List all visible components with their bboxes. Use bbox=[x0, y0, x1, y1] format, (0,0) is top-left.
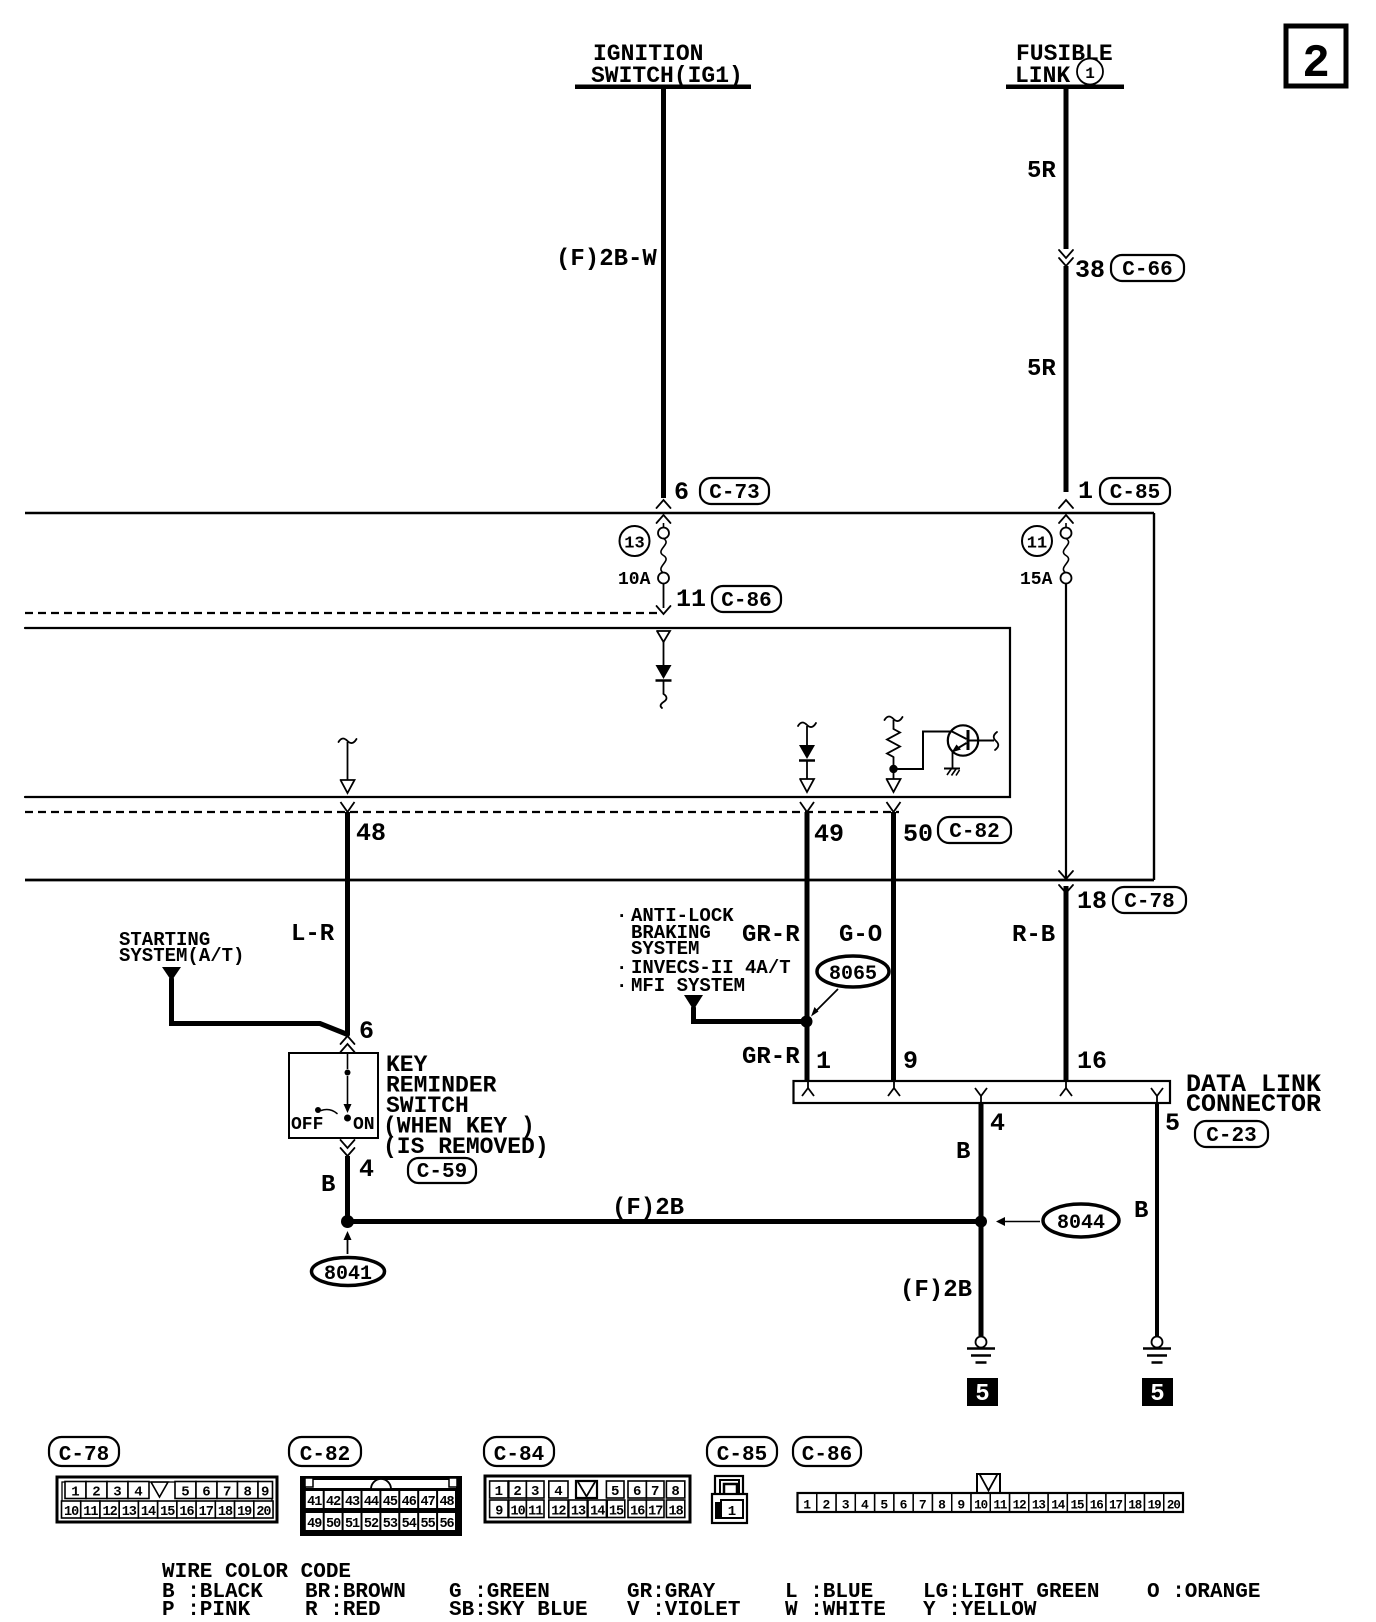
svg-text:10A: 10A bbox=[618, 570, 651, 590]
junction splice dot 8065 bbox=[801, 1016, 813, 1028]
svg-text:14: 14 bbox=[141, 1505, 156, 1520]
connector C-66 label bbox=[1111, 255, 1184, 282]
arrow from 8044 to splice bbox=[996, 1217, 1040, 1226]
junction splice dot 8041 bbox=[341, 1215, 354, 1228]
svg-text:8065: 8065 bbox=[829, 963, 877, 986]
ETACS box top edge bbox=[25, 512, 1154, 514]
svg-text:5R: 5R bbox=[1027, 356, 1056, 383]
svg-text:6: 6 bbox=[633, 1484, 641, 1500]
svg-text:B: B bbox=[1134, 1198, 1148, 1225]
transistor Q bbox=[944, 725, 978, 775]
svg-text:15: 15 bbox=[609, 1505, 624, 1520]
connector C-86 label bbox=[793, 1437, 861, 1467]
svg-text:9: 9 bbox=[957, 1498, 965, 1513]
svg-text:51: 51 bbox=[345, 1517, 360, 1532]
arrow crossing at pin 18 C-78 bbox=[1059, 871, 1073, 893]
svg-text:C-78: C-78 bbox=[1124, 891, 1174, 914]
output arrow to pin 48 bbox=[339, 739, 357, 794]
svg-text:4: 4 bbox=[359, 1155, 374, 1184]
svg-text:(F)2B: (F)2B bbox=[612, 1195, 684, 1222]
svg-text:5: 5 bbox=[880, 1498, 888, 1513]
ground right bbox=[1143, 1337, 1171, 1363]
svg-text:44: 44 bbox=[364, 1495, 379, 1510]
ETACS box bottom edge bbox=[25, 879, 1154, 882]
wire fuse 11 down to pin 18 bbox=[1065, 584, 1067, 879]
key reminder switch internals bbox=[315, 1053, 352, 1122]
svg-text:15A: 15A bbox=[1020, 570, 1053, 590]
branch arrow starting system bbox=[162, 967, 348, 1035]
svg-text:20: 20 bbox=[256, 1505, 271, 1520]
svg-text:7: 7 bbox=[223, 1485, 231, 1501]
junction node base bbox=[889, 765, 897, 773]
wire B from DLC pin 4 bbox=[979, 1103, 984, 1336]
svg-text:R-B: R-B bbox=[1012, 922, 1055, 949]
svg-text:1: 1 bbox=[803, 1498, 811, 1513]
svg-text:SYSTEM(A/T): SYSTEM(A/T) bbox=[119, 945, 244, 967]
svg-text:C-85: C-85 bbox=[1110, 482, 1160, 505]
connector C-86 label bbox=[712, 586, 781, 613]
branch arrow ABS/INVECS/MFI bbox=[684, 995, 806, 1022]
svg-text:3: 3 bbox=[113, 1485, 121, 1501]
svg-text:16: 16 bbox=[630, 1505, 645, 1520]
svg-text:C-86: C-86 bbox=[721, 590, 771, 613]
arrow into C-86 pin 11 bbox=[657, 606, 671, 614]
svg-text:8: 8 bbox=[244, 1485, 252, 1501]
wire L-R bbox=[345, 812, 350, 1034]
svg-text:13: 13 bbox=[624, 535, 644, 554]
wire fuse 13 to pin 11 bbox=[663, 584, 665, 609]
arrow up to splice 8041 bbox=[344, 1231, 352, 1254]
svg-text:ON: ON bbox=[353, 1115, 375, 1135]
svg-text:C-82: C-82 bbox=[300, 1444, 350, 1467]
svg-text:C-59: C-59 bbox=[417, 1161, 467, 1184]
key reminder switch box bbox=[289, 1053, 378, 1138]
svg-text:2: 2 bbox=[513, 1484, 521, 1500]
svg-text:12: 12 bbox=[551, 1505, 566, 1520]
svg-text:5: 5 bbox=[975, 1381, 989, 1408]
svg-text:53: 53 bbox=[383, 1517, 398, 1532]
label systems list bbox=[616, 905, 791, 997]
label DATA LINK CONNECTOR bbox=[1186, 1070, 1321, 1119]
pin 49 terminal Y bbox=[800, 802, 814, 812]
connector C-82 pin label bbox=[938, 817, 1011, 844]
label STARTING SYSTEM(A/T) bbox=[119, 929, 244, 967]
svg-text:4: 4 bbox=[134, 1485, 142, 1501]
fuse 11 badge bbox=[1022, 526, 1052, 556]
svg-text:11: 11 bbox=[83, 1505, 98, 1520]
connector C-78 pin label bbox=[1113, 887, 1186, 914]
arrow from 8065 to splice bbox=[811, 989, 838, 1017]
inner module box bbox=[25, 628, 1010, 797]
svg-text:(F)2B-W: (F)2B-W bbox=[556, 246, 657, 273]
svg-text:R :RED: R :RED bbox=[305, 1599, 381, 1622]
svg-text:8044: 8044 bbox=[1057, 1212, 1105, 1235]
svg-text:5: 5 bbox=[1150, 1381, 1164, 1408]
svg-text:13: 13 bbox=[571, 1505, 586, 1520]
svg-text:C-84: C-84 bbox=[494, 1444, 544, 1467]
svg-text:1: 1 bbox=[71, 1485, 79, 1501]
svg-text:1: 1 bbox=[816, 1047, 831, 1076]
svg-text:16: 16 bbox=[1090, 1499, 1104, 1513]
svg-text:8: 8 bbox=[671, 1484, 679, 1500]
data link connector box bbox=[794, 1081, 1171, 1103]
node IGNITION SWITCH(IG1) bbox=[575, 41, 751, 89]
svg-text:B: B bbox=[321, 1172, 335, 1199]
svg-text:55: 55 bbox=[421, 1517, 436, 1532]
svg-text:15: 15 bbox=[160, 1505, 175, 1520]
connector C-85 label bbox=[707, 1437, 777, 1467]
connector C-85 label bbox=[1100, 478, 1170, 505]
svg-text:54: 54 bbox=[402, 1517, 417, 1532]
svg-text:O :ORANGE: O :ORANGE bbox=[1147, 1581, 1260, 1604]
svg-text:11: 11 bbox=[528, 1505, 543, 1520]
junction to pin 50 arrow bbox=[887, 773, 901, 792]
svg-text:5: 5 bbox=[611, 1484, 619, 1500]
svg-text:13: 13 bbox=[1032, 1499, 1046, 1513]
connector C-86 pinout bbox=[798, 1474, 1184, 1513]
connector C-84 label bbox=[484, 1437, 554, 1467]
svg-text:CONNECTOR: CONNECTOR bbox=[1186, 1090, 1321, 1119]
fuse 13 bbox=[658, 528, 669, 584]
connector C-78 pinout bbox=[57, 1477, 277, 1522]
svg-text:Y :YELLOW: Y :YELLOW bbox=[923, 1599, 1037, 1622]
connector C-86 dashed boundary bbox=[25, 612, 657, 614]
connector C-85 pinout bbox=[712, 1476, 747, 1523]
connector C-82 pinout bbox=[300, 1476, 462, 1536]
svg-text:C-73: C-73 bbox=[709, 482, 759, 505]
svg-text:3: 3 bbox=[531, 1484, 539, 1500]
wire R-B to DLC bbox=[1064, 886, 1069, 1081]
junction splice dot 8044 bbox=[975, 1216, 987, 1228]
svg-text:8: 8 bbox=[938, 1498, 946, 1513]
svg-text:43: 43 bbox=[345, 1495, 360, 1510]
svg-text:56: 56 bbox=[439, 1517, 454, 1532]
diode D2 bbox=[798, 723, 816, 793]
connector C-73 label bbox=[700, 478, 769, 505]
svg-text:17: 17 bbox=[1109, 1499, 1123, 1513]
diode D1 bbox=[656, 631, 672, 708]
svg-text:10: 10 bbox=[510, 1505, 525, 1520]
svg-text:·: · bbox=[616, 905, 627, 927]
svg-text:1: 1 bbox=[1085, 65, 1095, 83]
svg-text:19: 19 bbox=[1148, 1499, 1162, 1513]
connector C-59 label bbox=[408, 1158, 476, 1184]
svg-text:4: 4 bbox=[861, 1498, 869, 1513]
svg-text:V :VIOLET: V :VIOLET bbox=[627, 1599, 740, 1622]
svg-text:C-85: C-85 bbox=[717, 1444, 767, 1467]
DLC terminal pin 16 bbox=[1060, 1081, 1072, 1096]
svg-text:5R: 5R bbox=[1027, 158, 1056, 185]
svg-text:9: 9 bbox=[495, 1505, 503, 1520]
resistor R bbox=[885, 717, 903, 766]
svg-text:C-78: C-78 bbox=[59, 1444, 109, 1467]
pin 48 terminal Y bbox=[341, 802, 355, 812]
svg-text:W :WHITE: W :WHITE bbox=[785, 1599, 886, 1622]
svg-text:GR-R: GR-R bbox=[742, 1044, 800, 1071]
wire IG1 2B-W bbox=[661, 89, 666, 498]
connector C-82 dashed boundary bbox=[25, 811, 899, 813]
key switch bottom terminal chevrons bbox=[341, 1140, 355, 1156]
svg-text:6: 6 bbox=[900, 1498, 908, 1513]
svg-text:C-82: C-82 bbox=[949, 821, 999, 844]
svg-text:2: 2 bbox=[1302, 38, 1330, 90]
ETACS box right edge bbox=[1153, 513, 1155, 880]
svg-text:48: 48 bbox=[439, 1495, 454, 1510]
svg-text:MFI SYSTEM: MFI SYSTEM bbox=[631, 975, 745, 997]
ground marker 5 left bbox=[967, 1378, 998, 1408]
wire 5R lower bbox=[1064, 266, 1069, 492]
fuse 13 badge bbox=[620, 526, 650, 556]
wire to transistor base bbox=[894, 732, 953, 770]
svg-text:14: 14 bbox=[590, 1505, 605, 1520]
svg-text:50: 50 bbox=[903, 820, 933, 849]
svg-text:52: 52 bbox=[364, 1517, 379, 1532]
svg-text:9: 9 bbox=[261, 1485, 269, 1501]
wire 5R upper bbox=[1064, 89, 1069, 249]
wire B from key switch bbox=[345, 1156, 350, 1221]
page tag 2 bbox=[1286, 26, 1346, 90]
fuse 11 terminal chevron bbox=[1059, 515, 1073, 528]
svg-text:45: 45 bbox=[383, 1495, 398, 1510]
svg-text:11: 11 bbox=[993, 1499, 1007, 1513]
transistor collector out bbox=[970, 732, 999, 750]
svg-text:20: 20 bbox=[1167, 1499, 1181, 1513]
svg-text:12: 12 bbox=[1013, 1499, 1027, 1513]
DLC terminal pin 9 bbox=[888, 1081, 900, 1096]
svg-text:48: 48 bbox=[356, 819, 386, 848]
svg-text:8041: 8041 bbox=[324, 1263, 372, 1286]
connector C-82 label bbox=[289, 1437, 361, 1467]
svg-text:13: 13 bbox=[122, 1505, 137, 1520]
svg-text:1: 1 bbox=[728, 1504, 736, 1520]
wire color code table bbox=[162, 1561, 1260, 1622]
DLC terminal pin 1 bbox=[802, 1081, 814, 1096]
svg-text:49: 49 bbox=[307, 1517, 322, 1532]
svg-text:GR-R: GR-R bbox=[742, 922, 800, 949]
svg-text:11: 11 bbox=[1027, 535, 1047, 554]
connector C-84 pinout bbox=[485, 1476, 690, 1522]
connector C-78 label bbox=[49, 1437, 119, 1467]
svg-text:47: 47 bbox=[421, 1495, 436, 1510]
svg-text:6: 6 bbox=[674, 478, 689, 507]
svg-text:B: B bbox=[956, 1139, 970, 1166]
ground left bbox=[967, 1337, 995, 1363]
svg-text:9: 9 bbox=[903, 1047, 918, 1076]
svg-text:18: 18 bbox=[668, 1505, 683, 1520]
svg-text:42: 42 bbox=[326, 1495, 341, 1510]
svg-text:OFF: OFF bbox=[291, 1115, 323, 1135]
pin 1 arrow into ETACS bbox=[1059, 500, 1073, 508]
connector C-23 label bbox=[1195, 1121, 1268, 1148]
splice label 8044 bbox=[1043, 1204, 1119, 1237]
svg-text:(F)2B: (F)2B bbox=[900, 1277, 972, 1304]
svg-text:G-O: G-O bbox=[839, 922, 882, 949]
svg-text:18: 18 bbox=[1077, 887, 1107, 916]
svg-text:50: 50 bbox=[326, 1517, 341, 1532]
wire G-O bbox=[891, 812, 896, 1081]
svg-text:4: 4 bbox=[554, 1484, 562, 1500]
svg-text:P :PINK: P :PINK bbox=[162, 1599, 251, 1622]
svg-text:4: 4 bbox=[990, 1109, 1005, 1138]
svg-text:1: 1 bbox=[495, 1484, 503, 1500]
svg-text:C-23: C-23 bbox=[1206, 1125, 1256, 1148]
svg-text:6: 6 bbox=[202, 1485, 210, 1501]
svg-text:41: 41 bbox=[307, 1495, 322, 1510]
key switch top terminal chevrons bbox=[341, 1036, 355, 1054]
svg-text:16: 16 bbox=[179, 1505, 194, 1520]
node FUSIBLE LINK 1 bbox=[1006, 41, 1124, 89]
svg-text:5: 5 bbox=[1165, 1109, 1180, 1138]
label KEY REMINDER SWITCH bbox=[383, 1052, 549, 1160]
svg-text:C-66: C-66 bbox=[1122, 259, 1172, 282]
svg-text:·: · bbox=[616, 975, 627, 997]
svg-text:46: 46 bbox=[402, 1495, 417, 1510]
svg-text:12: 12 bbox=[102, 1505, 117, 1520]
pin 50 terminal Y bbox=[887, 802, 901, 812]
svg-text:49: 49 bbox=[814, 820, 844, 849]
svg-text:2: 2 bbox=[92, 1485, 100, 1501]
svg-text:18: 18 bbox=[1128, 1499, 1142, 1513]
DLC terminal pin 5 bbox=[1151, 1088, 1163, 1103]
splice label 8065 bbox=[817, 956, 889, 987]
svg-text:19: 19 bbox=[237, 1505, 252, 1520]
svg-text:3: 3 bbox=[842, 1498, 850, 1513]
svg-text:38: 38 bbox=[1075, 256, 1105, 285]
svg-text:L-R: L-R bbox=[291, 921, 335, 948]
DLC terminal pin 4 bbox=[975, 1088, 987, 1103]
svg-text:17: 17 bbox=[648, 1505, 663, 1520]
fuse 13 terminal chevron bbox=[657, 515, 671, 528]
svg-text:17: 17 bbox=[199, 1505, 214, 1520]
fuse 11 bbox=[1061, 528, 1072, 584]
svg-text:16: 16 bbox=[1077, 1047, 1107, 1076]
svg-text:C-86: C-86 bbox=[802, 1444, 852, 1467]
svg-text:5: 5 bbox=[181, 1485, 189, 1501]
svg-text:SB:SKY BLUE: SB:SKY BLUE bbox=[449, 1599, 588, 1622]
svg-text:1: 1 bbox=[1078, 477, 1093, 506]
svg-text:10: 10 bbox=[64, 1505, 79, 1520]
wire GR-R from pin 49 bbox=[805, 812, 810, 1081]
svg-text:(IS REMOVED): (IS REMOVED) bbox=[383, 1134, 549, 1160]
ground marker 5 right bbox=[1142, 1378, 1173, 1408]
wire B from DLC pin 5 bbox=[1155, 1103, 1159, 1336]
svg-text:2: 2 bbox=[823, 1498, 831, 1513]
svg-text:6: 6 bbox=[359, 1017, 374, 1046]
svg-text:10: 10 bbox=[974, 1499, 988, 1513]
wire (F)2B horizontal bbox=[348, 1219, 982, 1224]
svg-text:11: 11 bbox=[676, 585, 706, 614]
svg-text:14: 14 bbox=[1051, 1499, 1066, 1513]
splice label 8041 bbox=[312, 1258, 385, 1287]
pin 6 arrow into ETACS bbox=[657, 500, 671, 508]
inline connector 38 C-66 chevrons bbox=[1059, 250, 1073, 266]
svg-text:18: 18 bbox=[218, 1505, 233, 1520]
svg-text:15: 15 bbox=[1070, 1499, 1084, 1513]
svg-text:7: 7 bbox=[919, 1498, 927, 1513]
svg-text:7: 7 bbox=[651, 1484, 659, 1500]
